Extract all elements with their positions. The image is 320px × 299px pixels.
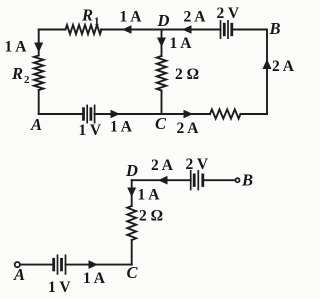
wire right side (B down to bottom-right corner)	[266, 30, 268, 115]
label 2 V (bottom circuit battery)	[186, 156, 209, 173]
label 2 ohm (bottom circuit)	[139, 208, 163, 225]
svg-text:A: A	[13, 265, 25, 284]
current arrow 1 A (top wire, pointing left)	[122, 25, 132, 34]
wire battery 2V to corner B	[232, 29, 267, 31]
node C (bottom circuit)	[127, 263, 139, 282]
terminal A (bottom circuit, open circle)	[15, 262, 20, 267]
label 2 V (top circuit battery)	[217, 5, 240, 22]
current arrow 2 A (bottom circuit top wire, pointing left)	[158, 176, 168, 185]
wire C up to 2ohm resistor	[131, 240, 133, 265]
svg-text:1 A: 1 A	[138, 187, 161, 204]
svg-text:2 A: 2 A	[151, 157, 174, 174]
label 1 A (bottom circuit branch)	[138, 187, 161, 204]
label 2 A (bottom circuit top wire)	[151, 157, 174, 174]
resistor R2	[34, 56, 43, 91]
wire bottom-left (A to battery 1V)	[39, 113, 84, 115]
label 1 V (bottom circuit battery)	[48, 279, 71, 296]
svg-text:2 V: 2 V	[217, 5, 240, 22]
battery 2 V (bottom circuit)	[191, 171, 203, 190]
resistor 2 ohm (bottom circuit)	[127, 206, 136, 240]
node B (top circuit)	[269, 19, 281, 38]
wire left side lower (R2 to corner A)	[38, 90, 40, 114]
svg-text:C: C	[155, 114, 167, 133]
svg-text:1 V: 1 V	[79, 122, 102, 139]
svg-text:1 A: 1 A	[170, 35, 193, 52]
terminal B (bottom circuit, open circle)	[235, 178, 239, 182]
wire top right (D to battery 2V)	[162, 29, 221, 31]
resistor R1	[66, 25, 102, 34]
node D (top circuit)	[157, 11, 170, 30]
label 1 A (middle branch)	[170, 35, 193, 52]
wire left side upper (corner down to R2)	[38, 30, 40, 56]
wire battery 1V to node C	[66, 264, 132, 266]
svg-text:1 V: 1 V	[48, 279, 71, 296]
svg-text:2 Ω: 2 Ω	[175, 66, 199, 83]
current arrow 1 A (middle branch, pointing down)	[157, 38, 166, 48]
current arrow 1 A (bottom circuit lower wire, pointing right)	[89, 260, 99, 269]
label 1 V (top circuit battery)	[79, 122, 102, 139]
label 2 A (bottom wire)	[177, 120, 200, 137]
svg-text:C: C	[127, 263, 139, 282]
current arrow 2 A (bottom wire, pointing right)	[184, 110, 194, 119]
wire terminal A to battery 1V	[20, 264, 54, 266]
svg-text:2: 2	[24, 74, 30, 86]
svg-text:2 V: 2 V	[186, 156, 209, 173]
label 1 A (bottom circuit lower wire)	[83, 270, 106, 287]
label 1 A (left wire)	[5, 39, 28, 56]
battery 1 V (top circuit)	[84, 105, 95, 122]
svg-text:1 A: 1 A	[83, 270, 106, 287]
wire bottom resistor to bottom-right corner	[241, 113, 268, 115]
wire top-left segment (corner to R1)	[39, 29, 66, 31]
svg-text:2 A: 2 A	[272, 58, 295, 75]
node label A (bottom circuit)	[13, 265, 25, 284]
svg-text:1 A: 1 A	[5, 39, 28, 56]
wire 2ohm up to node D	[131, 180, 133, 206]
battery 2 V (top circuit)	[221, 21, 232, 38]
svg-text:D: D	[157, 11, 170, 30]
node A (top circuit)	[30, 115, 42, 134]
label 1 A (top wire)	[120, 9, 143, 26]
label 2 A (right wire)	[272, 58, 295, 75]
resistor 2 ohm (top circuit)	[157, 56, 166, 91]
label R2	[11, 64, 30, 86]
svg-text:2 A: 2 A	[184, 9, 207, 26]
label 2 A (top right wire)	[184, 9, 207, 26]
svg-text:1 A: 1 A	[110, 119, 133, 136]
label 1 A (bottom wire)	[110, 119, 133, 136]
label R1	[81, 6, 100, 28]
wire middle branch lower (2ohm to C)	[161, 91, 163, 115]
wire middle branch upper (D to 2ohm resistor)	[161, 30, 163, 57]
node C (top circuit)	[155, 114, 167, 133]
node D (bottom circuit)	[125, 161, 138, 180]
svg-text:R: R	[11, 64, 23, 83]
current arrow 1 A (left wire, pointing down)	[34, 43, 43, 53]
wire top middle (R1 to node D)	[101, 29, 162, 31]
wire battery 1V to node C	[95, 113, 162, 115]
svg-text:B: B	[269, 19, 281, 38]
svg-text:1 A: 1 A	[120, 9, 143, 26]
svg-text:A: A	[30, 115, 42, 134]
resistor (unlabeled, bottom wire)	[210, 109, 241, 118]
svg-text:D: D	[125, 161, 138, 180]
current arrow 2 A (top right wire, pointing left)	[182, 25, 192, 34]
wire C to bottom resistor	[162, 113, 211, 115]
svg-text:2 A: 2 A	[177, 120, 200, 137]
wire battery 2V to terminal B	[203, 179, 235, 181]
svg-text:1: 1	[94, 16, 100, 28]
svg-text:2 Ω: 2 Ω	[139, 208, 163, 225]
current arrow 1 A (bottom circuit branch, pointing down)	[127, 188, 136, 198]
svg-text:B: B	[241, 171, 253, 190]
label 2 ohm (top circuit)	[175, 66, 199, 83]
current arrow 2 A (right wire, pointing up)	[263, 59, 272, 69]
current arrow 1 A (bottom wire, pointing right)	[111, 110, 121, 119]
node label B (bottom circuit)	[241, 171, 253, 190]
wire D to battery 2V (bottom circuit)	[132, 179, 191, 181]
battery 1 V (bottom circuit)	[54, 255, 66, 274]
svg-text:R: R	[81, 6, 93, 25]
